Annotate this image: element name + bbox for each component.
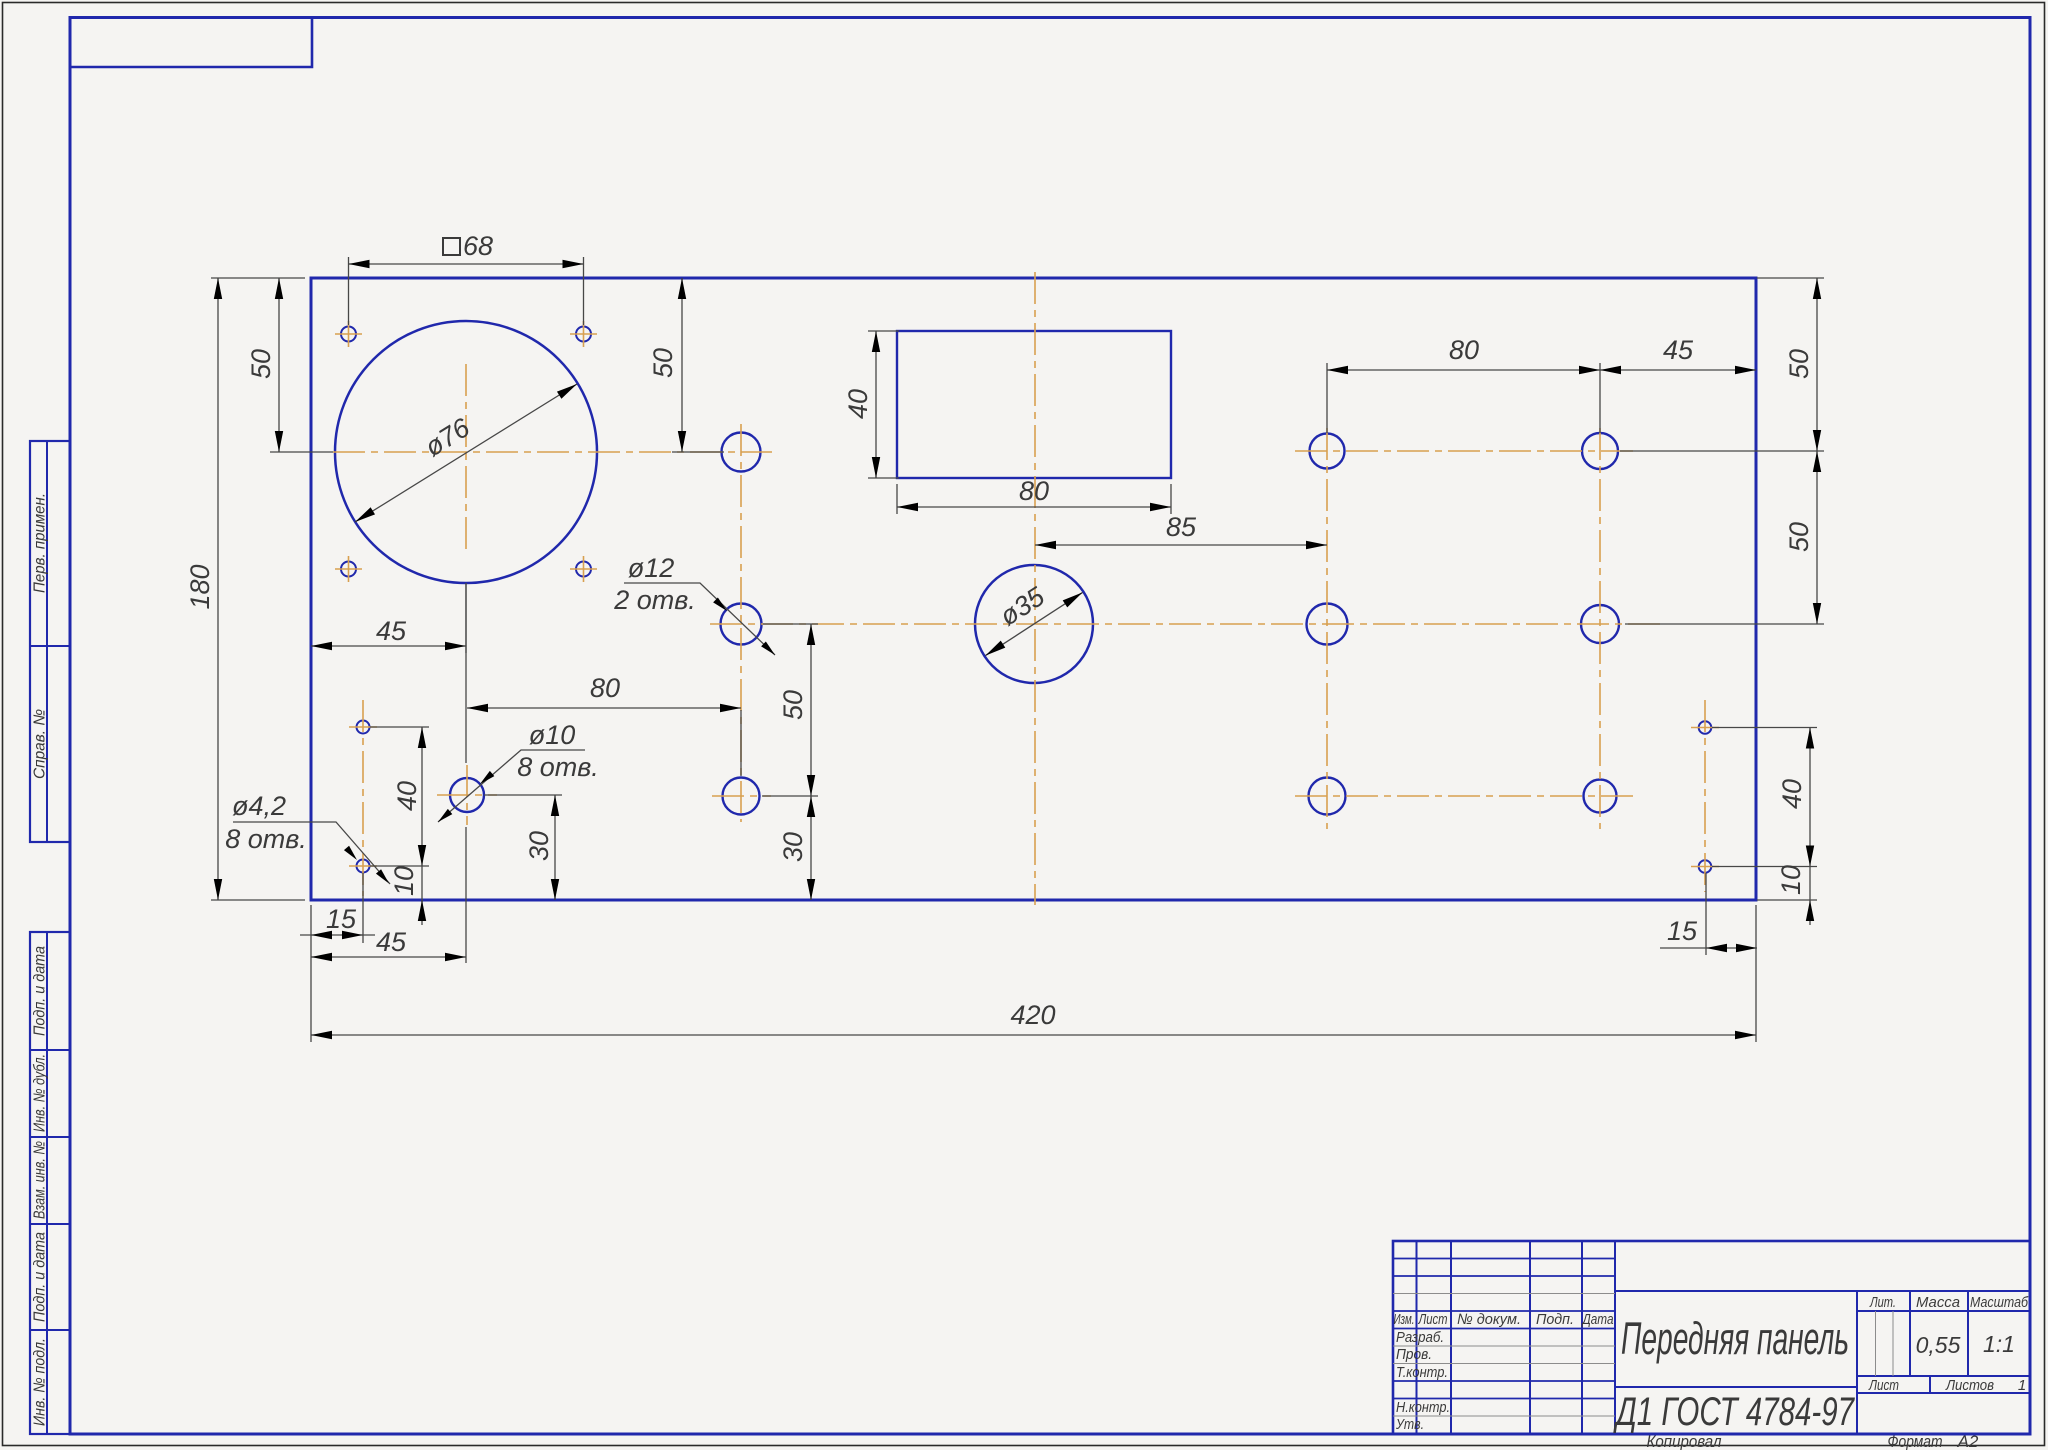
svg-text:Взам. инв. №: Взам. инв. № — [32, 1141, 49, 1219]
svg-text:Пров.: Пров. — [1396, 1346, 1432, 1363]
svg-text:Масштаб: Масштаб — [1970, 1294, 2028, 1311]
dimension 10 bottom-right — [1757, 865, 1817, 925]
svg-text:40: 40 — [843, 389, 873, 419]
svg-text:40: 40 — [392, 781, 422, 811]
dimension 50 middle column — [762, 624, 818, 796]
svg-text:45: 45 — [376, 927, 407, 957]
centerline bottom-right holes vertical — [1704, 700, 1706, 892]
top-left extra box — [70, 18, 312, 68]
svg-text:Н.контр.: Н.контр. — [1396, 1399, 1450, 1416]
svg-text:80: 80 — [590, 673, 620, 703]
svg-text:85: 85 — [1166, 512, 1197, 542]
svg-text:0,55: 0,55 — [1916, 1332, 1961, 1358]
svg-text:№ докум.: № докум. — [1457, 1311, 1521, 1328]
svg-text:Т.контр.: Т.контр. — [1396, 1364, 1448, 1381]
left upper column strip — [30, 441, 70, 842]
hole D12 middle — [721, 604, 762, 645]
svg-text:15: 15 — [326, 904, 357, 934]
svg-text:45: 45 — [376, 616, 407, 646]
hole D10 left — [450, 778, 484, 812]
svg-text:Справ. №: Справ. № — [32, 709, 49, 779]
svg-text:10: 10 — [389, 866, 419, 896]
svg-text:68: 68 — [463, 231, 493, 261]
dimension 15 bottom-left — [300, 873, 375, 943]
centerline grid left column — [1326, 428, 1328, 829]
corner hole 4.2 bottom-right — [576, 562, 591, 577]
svg-text:420: 420 — [1010, 1000, 1055, 1030]
corner hole 4.2 top-right — [576, 327, 591, 342]
callout D10 8 holes — [436, 720, 599, 825]
dimension 420 overall width — [311, 905, 1756, 1042]
svg-text:Подп. и дата: Подп. и дата — [32, 946, 49, 1036]
dimension D35 diagonal — [983, 581, 1085, 659]
svg-text:ø10: ø10 — [529, 720, 576, 750]
dimension 50 top-left — [246, 278, 333, 452]
dimension 15 bottom-right — [1660, 873, 1757, 955]
svg-text:ø4,2: ø4,2 — [232, 791, 286, 821]
svg-text:180: 180 — [185, 564, 215, 609]
grid hole right-top — [1582, 433, 1618, 469]
grid hole right-middle — [1581, 605, 1619, 643]
title block outline — [1393, 1241, 2030, 1434]
svg-text:50: 50 — [648, 348, 678, 378]
svg-text:Масса: Масса — [1916, 1294, 1960, 1311]
dimension 40 cutout — [843, 331, 899, 478]
dimension 40 bottom-right — [1712, 728, 1817, 867]
hole D10 column middle bottom — [723, 778, 760, 815]
title block left horizontals thin — [1393, 1294, 1615, 1417]
svg-text:10: 10 — [1776, 865, 1806, 895]
title block right structure — [1615, 1291, 2030, 1434]
svg-text:Дата: Дата — [1581, 1311, 1614, 1328]
left lower column strip — [30, 932, 70, 1434]
dimension 45 bottom-left — [311, 827, 466, 963]
svg-text:1: 1 — [2018, 1377, 2026, 1394]
svg-text:30: 30 — [778, 832, 808, 862]
TITLE BLOCK — [1393, 1241, 2030, 1450]
dimension 85 — [1035, 512, 1327, 549]
callout D12 2 holes — [613, 553, 777, 657]
svg-text:15: 15 — [1667, 916, 1698, 946]
small hole bottom-left upper — [357, 721, 370, 734]
svg-text:Листов: Листов — [1945, 1377, 1994, 1394]
svg-text:Передняя панель: Передняя панель — [1621, 1313, 1849, 1364]
small hole bottom-right upper — [1699, 721, 1712, 734]
svg-text:Подп.: Подп. — [1536, 1311, 1574, 1328]
svg-text:30: 30 — [524, 831, 554, 861]
dimension 45 right grid — [1600, 335, 1756, 374]
dimension 50 top-right — [1620, 278, 1824, 451]
svg-text:2 отв.: 2 отв. — [613, 585, 696, 615]
grid hole left-bottom — [1309, 778, 1346, 815]
dimension 50 right second — [1625, 451, 1824, 624]
svg-text:50: 50 — [246, 349, 276, 379]
svg-text:45: 45 — [1663, 335, 1694, 365]
centerline cross bottom-right holes — [1691, 728, 1719, 867]
dimension 80 middle — [466, 583, 741, 776]
dimension sq68 — [349, 231, 584, 325]
title block vertical lines left part — [1417, 1241, 1616, 1434]
dimension 40 bottom-left — [370, 727, 429, 866]
centerline grid bottom row — [1295, 795, 1636, 797]
svg-text:Изм.: Изм. — [1394, 1311, 1415, 1328]
svg-text:Инв. № дубл.: Инв. № дубл. — [32, 1054, 49, 1132]
centerline cross bottom-left holes — [349, 727, 377, 866]
grid hole right-bottom — [1584, 780, 1617, 813]
centerline cross corner hole TR — [570, 321, 597, 347]
title block left horizontals blue — [1393, 1259, 1615, 1399]
centerline cross corner hole BL — [335, 556, 362, 582]
centerline long vertical D35 column — [1034, 272, 1036, 905]
svg-text:Лит.: Лит. — [1869, 1294, 1896, 1311]
centerline grid top row — [1295, 450, 1636, 452]
rectangular cutout 80x40 — [897, 331, 1171, 478]
dimension 30 bottom-left — [484, 795, 562, 900]
centerline big circle horizontal — [333, 451, 772, 453]
svg-text:50: 50 — [1784, 522, 1814, 552]
svg-text:ø12: ø12 — [628, 553, 675, 583]
svg-text:50: 50 — [1784, 349, 1814, 379]
centerline cross corner hole BR — [570, 556, 597, 582]
dimension 10 bottom-left — [389, 866, 426, 925]
svg-text:Инв. № подл.: Инв. № подл. — [32, 1338, 49, 1426]
svg-text:Перв. примен.: Перв. примен. — [32, 493, 49, 593]
svg-text:80: 80 — [1449, 335, 1479, 365]
centerline long horizontal middle row — [710, 623, 1660, 625]
dimension 80 cutout — [897, 476, 1171, 514]
centerline bottom-left holes vertical — [362, 700, 364, 896]
svg-text:А2: А2 — [1957, 1432, 1979, 1450]
svg-text:80: 80 — [1019, 476, 1049, 506]
svg-text:Лист: Лист — [1868, 1377, 1899, 1394]
corner hole 4.2 top-left — [341, 327, 356, 342]
lit subdividers — [1876, 1311, 1894, 1376]
centerline middle column bottom circle horizontal — [712, 795, 771, 797]
dimension 45 top — [311, 583, 466, 653]
svg-text:Утв.: Утв. — [1395, 1416, 1424, 1433]
small hole bottom-right lower — [1699, 860, 1712, 873]
callout D4.2 8 holes — [225, 791, 391, 886]
corner hole 4.2 bottom-left — [341, 562, 356, 577]
hole D12 top (middle column) — [722, 433, 761, 472]
centerline cross corner hole TL — [335, 321, 362, 347]
svg-text:Лист: Лист — [1418, 1311, 1448, 1328]
svg-text:Д1 ГОСТ 4784-97: Д1 ГОСТ 4784-97 — [1613, 1390, 1855, 1434]
centerline middle column vertical — [740, 424, 742, 822]
dimension 180 overall height — [185, 278, 305, 900]
big hole D76 — [335, 321, 597, 583]
svg-text:Разраб.: Разраб. — [1396, 1329, 1444, 1346]
svg-text:Копировал: Копировал — [1647, 1432, 1722, 1450]
svg-text:Формат: Формат — [1888, 1432, 1943, 1450]
centerline grid right column — [1599, 428, 1601, 829]
dimension D76 diagonal — [353, 380, 579, 525]
svg-text:50: 50 — [778, 690, 808, 720]
dimension 30 middle column — [778, 796, 815, 900]
svg-text:1:1: 1:1 — [1983, 1331, 2015, 1357]
svg-text:40: 40 — [1777, 779, 1807, 809]
panel outline 420x180 — [311, 278, 1756, 900]
dimension 80 right grid — [1327, 335, 1600, 433]
svg-text:8 отв.: 8 отв. — [225, 824, 307, 854]
svg-text:8 отв.: 8 отв. — [517, 752, 599, 782]
svg-text:Подп. и дата: Подп. и дата — [32, 1232, 49, 1322]
hole D35 — [975, 565, 1093, 683]
centerline big circle vertical — [465, 364, 467, 552]
small hole bottom-left lower — [357, 860, 370, 873]
grid hole left-middle — [1307, 604, 1348, 645]
grid hole left-top — [1310, 434, 1345, 469]
dimension 50 second — [648, 278, 724, 452]
centerline cross hole D10 — [437, 765, 497, 825]
